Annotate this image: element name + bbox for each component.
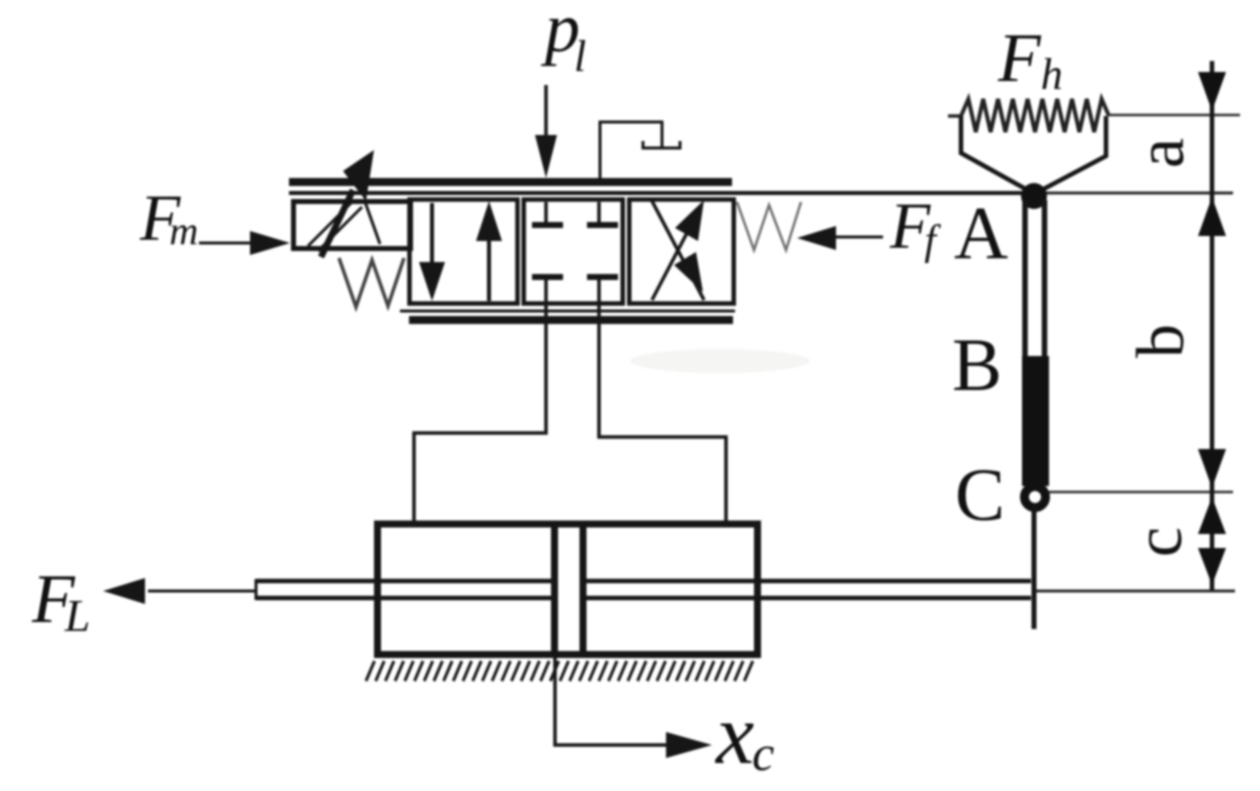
dim arrow up to lever line [1198, 197, 1226, 236]
piston rod bottom line [256, 596, 1031, 601]
valve cell 1 box [410, 200, 518, 304]
cell 2 bottom-left blocked port stub [544, 278, 548, 303]
cell 3 cross wire down-right [652, 201, 704, 300]
bottom rail thick line [409, 316, 733, 324]
cell 2 bottom-right blocked port stub [597, 278, 601, 303]
wishbone right post [1038, 116, 1106, 192]
right spring W at valve [737, 202, 801, 250]
spring top extension line [1109, 114, 1240, 117]
cell 3 up-right arrow head [675, 200, 704, 241]
spring Fh left stub [948, 114, 962, 117]
Ff arrow head [797, 226, 836, 250]
FL arrow wire [148, 590, 256, 593]
cell 3 down-right arrow head [674, 252, 703, 292]
link solid bar B-C [1022, 356, 1049, 486]
link left edge wire [1022, 200, 1028, 360]
valve-to-cylinder left wire [414, 303, 546, 524]
solenoid leg right [364, 199, 380, 244]
bottom rail thin line [400, 310, 735, 313]
Fm arrow wire [199, 242, 255, 245]
cylinder body [378, 524, 758, 655]
C level extension line [1049, 491, 1233, 494]
cell 3 cross wire up-right [652, 208, 700, 300]
cell 2 top-right blocked port stub [597, 202, 601, 224]
valve cell 2 box [524, 200, 623, 304]
drain wire [600, 122, 662, 179]
link right edge wire [1042, 200, 1048, 484]
link below C wire [1032, 506, 1037, 629]
dim arrow down to rod line [1198, 548, 1226, 585]
solenoid slash line 1 [308, 202, 352, 246]
valve cell 1 down arrow head [419, 262, 445, 301]
xc pickoff wire [555, 658, 668, 745]
svg-text:b: b [1122, 324, 1198, 358]
dim arrow up to C line [1198, 497, 1226, 534]
left spring W under solenoid [339, 258, 404, 307]
Ff arrow wire [812, 236, 883, 239]
cell 2 top-left port bar [532, 222, 563, 228]
wishbone left post [961, 116, 1031, 192]
shadow smudge [630, 349, 810, 373]
svg-text:a: a [1122, 138, 1198, 168]
node C circle [1025, 487, 1046, 508]
valve cell 1 up-flow wire [487, 208, 491, 301]
dim arrow down to C line [1198, 449, 1226, 488]
cell 2 bottom-right port bar [587, 274, 618, 280]
ground hatching [366, 661, 753, 681]
rod left end cap [255, 579, 258, 600]
svg-text:C: C [955, 454, 1005, 537]
spring Fh zigzag [961, 99, 1109, 132]
dimension vertical line [1210, 61, 1215, 590]
xc arrow head [666, 732, 712, 758]
piston rod top line [256, 579, 1031, 584]
pivot node A dot [1021, 183, 1047, 209]
valve cell 1 up arrow head [476, 201, 502, 241]
rod level extension line [1036, 590, 1235, 593]
valve-to-cylinder right wire [599, 303, 726, 524]
svg-text:B: B [952, 324, 1002, 407]
Fm arrow head [250, 231, 290, 255]
cell 2 bottom-left port bar [532, 274, 563, 280]
lever extension line to dimension [1035, 192, 1233, 195]
piston left line [551, 524, 558, 654]
pl arrow head [535, 135, 557, 178]
valve cell 3 box [629, 200, 734, 304]
proportional solenoid box [294, 202, 411, 249]
solenoid slash line 2 [318, 207, 362, 251]
piston right line [580, 524, 587, 654]
FL arrow head [103, 578, 145, 604]
cell 2 top-left blocked port stub [544, 202, 548, 224]
drain tank bar [643, 141, 680, 148]
cell 2 top-right port bar [587, 222, 618, 228]
pl supply wire [544, 85, 548, 145]
valve cell 1 down-flow wire [430, 203, 434, 296]
top rail upper thick line [289, 178, 732, 186]
piston column mask [558, 575, 580, 603]
solenoid arrow head [343, 150, 374, 201]
svg-text:c: c [1120, 527, 1196, 557]
lever arm line from valve to pivot A [289, 191, 1035, 195]
dim arrow down to spring line [1198, 72, 1226, 111]
solenoid arrow shaft [321, 190, 353, 257]
svg-text:A: A [954, 192, 1008, 275]
